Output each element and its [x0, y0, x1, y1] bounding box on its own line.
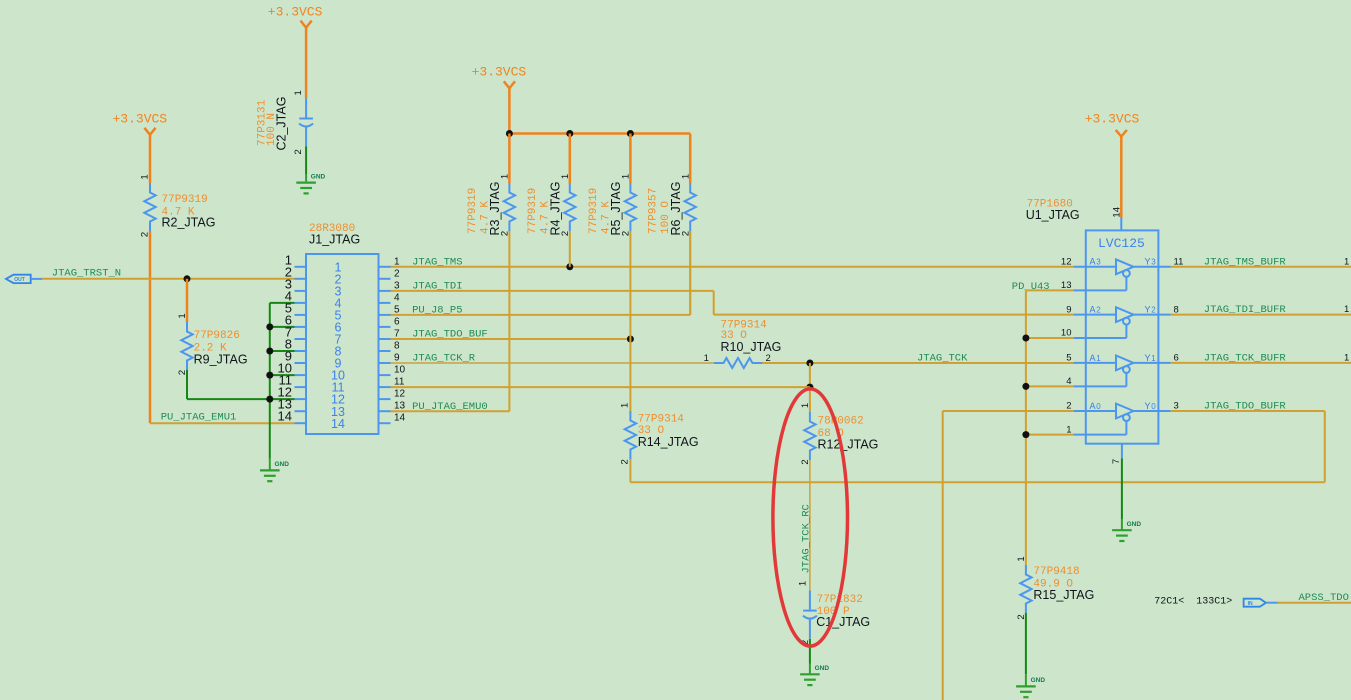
svg-text:3: 3	[394, 280, 400, 291]
svg-text:1: 1	[800, 403, 811, 408]
resistor R9 77P9826 2.2K	[177, 313, 247, 375]
wire R14 down and across to Y0 loop	[630, 459, 1324, 482]
svg-text:1: 1	[620, 403, 631, 408]
svg-text:10: 10	[394, 365, 406, 376]
svg-text:7: 7	[394, 329, 400, 340]
svg-text:78P0062: 78P0062	[818, 416, 864, 428]
wire pin1	[1026, 434, 1074, 436]
op-amp buffer U1 cell 1 (A1/Y1)	[1066, 353, 1179, 388]
svg-text:77P9826: 77P9826	[194, 330, 240, 342]
wire down to R12	[809, 387, 811, 412]
svg-text:GND: GND	[311, 173, 326, 180]
svg-text:9: 9	[1066, 304, 1071, 315]
wire pin10	[1026, 337, 1074, 339]
svg-text:GND: GND	[1127, 521, 1142, 528]
wire JTAG_TCK_BUFR	[1171, 362, 1351, 364]
svg-text:R10_JTAG: R10_JTAG	[721, 340, 782, 354]
svg-text:PU_JTAG_EMU1: PU_JTAG_EMU1	[161, 412, 237, 424]
resistor R2 77P9319 4.7K	[140, 174, 216, 237]
resistor R5 77P9319 4.7K	[588, 174, 636, 236]
svg-text:1: 1	[1096, 354, 1101, 363]
svg-text:2: 2	[620, 459, 631, 464]
wire R9 to ground bus	[187, 370, 270, 399]
svg-text:IN: IN	[1248, 601, 1253, 607]
svg-text:9: 9	[394, 353, 400, 364]
junction gnd pin6	[266, 323, 273, 330]
svg-text:+3.3VCS: +3.3VCS	[268, 4, 323, 19]
svg-text:2: 2	[1096, 306, 1101, 315]
svg-text:2: 2	[1066, 401, 1071, 412]
svg-text:R14_JTAG: R14_JTAG	[638, 435, 699, 449]
svg-text:1: 1	[680, 174, 691, 179]
wire JTAG_TDO_BUF J1 pin7 to R5/R14	[391, 338, 631, 340]
svg-text:+3.3VCS: +3.3VCS	[472, 65, 527, 80]
resistor R15 77P9418 49.9 ohm	[1016, 556, 1094, 619]
junction gnd pin12	[266, 396, 273, 403]
svg-text:14: 14	[394, 413, 406, 424]
svg-text:2: 2	[1151, 306, 1156, 315]
svg-text:1: 1	[560, 174, 571, 179]
wire R2 down to PU_JTAG_EMU1 row	[149, 231, 152, 423]
wire C1 to ground	[809, 639, 811, 664]
svg-text:JTAG_TCK_RC: JTAG_TCK_RC	[800, 504, 812, 573]
svg-text:2: 2	[293, 149, 304, 154]
svg-text:14: 14	[331, 417, 345, 431]
net JTAG_TCK_RC wire R12 to C1	[809, 460, 811, 591]
svg-text:1: 1	[1344, 256, 1349, 267]
svg-text:C1_JTAG: C1_JTAG	[816, 615, 870, 629]
svg-text:A: A	[1090, 354, 1096, 365]
svg-text:1: 1	[1344, 352, 1349, 363]
junction gnd pin10	[266, 372, 273, 379]
op-amp buffer U1 cell 0 (A0/Y0)	[1066, 401, 1179, 436]
port APSS_TDO (IN)	[1244, 599, 1278, 607]
svg-text:4: 4	[394, 292, 400, 303]
svg-text:Y: Y	[1145, 402, 1151, 413]
annotation red ellipse	[773, 389, 848, 646]
svg-text:3: 3	[1151, 258, 1156, 267]
enable net PD_U43 vertical	[1025, 290, 1027, 565]
svg-text:0: 0	[1151, 402, 1156, 411]
svg-text:1: 1	[140, 174, 151, 179]
resistor R14 77P9314 33 ohm	[620, 403, 699, 465]
svg-text:12: 12	[394, 389, 406, 400]
svg-text:77P9319: 77P9319	[588, 188, 600, 234]
svg-text:11: 11	[394, 377, 405, 388]
svg-text:77P9319: 77P9319	[467, 188, 479, 234]
capacitor C1 77P1832 100P	[797, 581, 870, 645]
svg-text:5: 5	[394, 304, 400, 315]
wire APSS_TDO	[1278, 602, 1351, 604]
svg-text:8: 8	[394, 341, 400, 352]
svg-text:J1_JTAG: J1_JTAG	[309, 233, 360, 247]
wire R4 to JTAG_TMS	[569, 231, 571, 267]
svg-text:R15_JTAG: R15_JTAG	[1033, 588, 1094, 602]
capacitor C2 77P3131 100N	[256, 90, 313, 154]
wire rail to R5	[629, 134, 632, 184]
svg-text:77P9319: 77P9319	[162, 194, 208, 206]
resistor R12 78P0062 68 ohm	[800, 403, 878, 465]
svg-text:2: 2	[394, 268, 400, 279]
wire C2 to ground	[305, 146, 307, 174]
wire JTAG_TDI_BUFR	[1171, 314, 1351, 316]
svg-text:77P9418: 77P9418	[1033, 566, 1079, 578]
svg-text:1: 1	[621, 174, 632, 179]
wire PU_JTAG_EMU0 J1 pin13 to R3	[391, 231, 510, 411]
junction pin10	[1022, 335, 1029, 342]
rail +3.3VCS	[509, 132, 690, 135]
wire pin4	[1026, 385, 1074, 387]
svg-text:1: 1	[293, 90, 304, 95]
junction TDO_BUF R5/R14	[627, 336, 634, 343]
wire pin13	[1026, 289, 1074, 291]
svg-text:R2_JTAG: R2_JTAG	[162, 215, 216, 229]
svg-text:1: 1	[1016, 556, 1027, 561]
svg-text:6: 6	[394, 316, 400, 327]
power symbol +3.3VCS (R2)	[113, 111, 168, 183]
svg-text:LVC125: LVC125	[1098, 236, 1145, 251]
svg-text:1: 1	[177, 313, 188, 318]
svg-text:R12_JTAG: R12_JTAG	[818, 438, 879, 452]
junction row11	[806, 384, 813, 391]
wire JTAG_TCK_R J1 pin9 to R10	[391, 362, 715, 364]
wire J1 pin11 row	[391, 386, 810, 388]
svg-text:GND: GND	[1031, 677, 1046, 684]
wire JTAG_TCK R10 to U1 A1	[762, 362, 1074, 364]
ground J1	[260, 470, 280, 481]
svg-text:A: A	[1090, 258, 1096, 269]
junction rail R3	[506, 130, 513, 137]
svg-text:14: 14	[1112, 207, 1123, 218]
svg-text:1: 1	[394, 256, 400, 267]
svg-text:1: 1	[797, 581, 808, 586]
svg-text:R4_JTAG: R4_JTAG	[549, 182, 563, 236]
ground bus for J1 pins 4,6,8,10,12	[270, 303, 295, 470]
svg-text:+3.3VCS: +3.3VCS	[1085, 112, 1140, 127]
ground C1	[800, 674, 820, 685]
resistor R6 77P9357 100 ohm	[648, 174, 696, 236]
svg-text:Y: Y	[1145, 258, 1151, 269]
wire PU_J8_P5 J1 pin5 to R6	[391, 231, 691, 315]
svg-text:GND: GND	[275, 461, 290, 468]
svg-text:OUT: OUT	[14, 277, 25, 283]
svg-text:1: 1	[1066, 424, 1071, 435]
svg-text:JTAG_TRST_N: JTAG_TRST_N	[52, 268, 121, 280]
svg-text:R6_JTAG: R6_JTAG	[669, 182, 683, 236]
resistor R10 77P9314 33 ohm	[704, 320, 782, 369]
svg-text:1: 1	[1344, 304, 1349, 315]
wire rail to R6	[689, 134, 692, 184]
svg-text:10: 10	[1061, 328, 1072, 339]
svg-text:77P9357: 77P9357	[648, 188, 660, 234]
svg-text:+3.3VCS: +3.3VCS	[113, 111, 168, 126]
power symbol +3.3VCS (pullup rail)	[472, 65, 527, 134]
wire R5 to JTAG_TDO_BUF	[629, 231, 631, 339]
wire A0 input from below	[943, 411, 1074, 700]
port JTAG_TRST_N (OUT)	[6, 275, 42, 284]
wire JTAG_TRST_N to J1 pin 2	[42, 278, 294, 280]
junction TCK column	[806, 360, 813, 367]
wire R5/TDO junction down to R14	[629, 339, 631, 411]
svg-text:R9_JTAG: R9_JTAG	[194, 353, 248, 367]
junction pin4	[1022, 383, 1029, 390]
svg-text:Y: Y	[1145, 306, 1151, 317]
svg-text:R5_JTAG: R5_JTAG	[609, 182, 623, 236]
op-amp buffer U1 cell 3 (A3/Y3)	[1061, 257, 1183, 292]
svg-text:77P9314: 77P9314	[638, 413, 685, 425]
svg-text:12: 12	[1061, 257, 1072, 268]
wire TCK down to row11	[809, 363, 811, 387]
svg-text:U1_JTAG: U1_JTAG	[1026, 208, 1080, 222]
wire R15 to ground	[1025, 613, 1027, 674]
svg-text:14: 14	[278, 409, 292, 424]
svg-text:R3_JTAG: R3_JTAG	[488, 182, 502, 236]
wire PU_JTAG_EMU1 to J1 pin 14	[150, 422, 295, 424]
ground R15	[1016, 686, 1036, 697]
svg-text:A: A	[1090, 402, 1096, 413]
wire JTAG_TMS_BUFR	[1171, 266, 1351, 268]
wire R6 to PU_J8_P5	[689, 231, 691, 315]
svg-text:77P9319: 77P9319	[527, 188, 539, 234]
svg-text:1: 1	[1151, 354, 1156, 363]
op-amp buffer U1 cell 2 (A2/Y2)	[1061, 304, 1179, 338]
ground C2	[296, 183, 316, 194]
junction TMS/R4	[566, 263, 573, 270]
svg-text:4: 4	[1066, 376, 1071, 387]
power symbol +3.3VCS (C2)	[268, 4, 323, 98]
wire JTAG_TDI J1 pin3	[391, 291, 1074, 315]
wire JTAG_TMS J1 pin1 to U1 A3	[391, 266, 1074, 268]
resistor R4 77P9319 4.7K	[527, 174, 575, 236]
svg-text:1: 1	[500, 174, 511, 179]
svg-text:1: 1	[704, 353, 709, 364]
junction rail R5	[627, 130, 634, 137]
svg-text:PD_U43: PD_U43	[1012, 281, 1050, 293]
wire rail to R3	[508, 134, 511, 184]
U1 pin 7 ground wire	[1121, 444, 1123, 459]
svg-text:72C1< 133C1>: 72C1< 133C1>	[1154, 597, 1232, 608]
wire rail to R4	[569, 134, 572, 184]
svg-text:Y: Y	[1145, 354, 1151, 365]
svg-text:13: 13	[394, 401, 406, 412]
svg-text:A: A	[1090, 306, 1096, 317]
junction TRST/R9	[184, 275, 191, 282]
wire JTAG_TDO_BUFR loop	[1171, 411, 1325, 482]
svg-text:5: 5	[1066, 353, 1071, 364]
svg-text:GND: GND	[815, 665, 830, 672]
connector J1_JTAG 28R3080	[278, 223, 406, 434]
junction gnd pin8	[266, 348, 273, 355]
svg-text:7: 7	[1111, 459, 1122, 464]
svg-text:0: 0	[1096, 402, 1101, 411]
svg-text:13: 13	[1061, 280, 1072, 291]
svg-text:3: 3	[1096, 258, 1101, 267]
ground U1	[1112, 530, 1132, 541]
power symbol +3.3VCS (U1)	[1085, 112, 1140, 231]
resistor R3 77P9319 4.7K	[467, 174, 515, 236]
junction rail R4	[566, 130, 573, 137]
svg-text:C2_JTAG: C2_JTAG	[274, 97, 288, 151]
junction pin1	[1022, 431, 1029, 438]
IC U1_JTAG 77P1680 LVC125	[1026, 199, 1159, 444]
wire junction down to R9	[186, 279, 189, 322]
